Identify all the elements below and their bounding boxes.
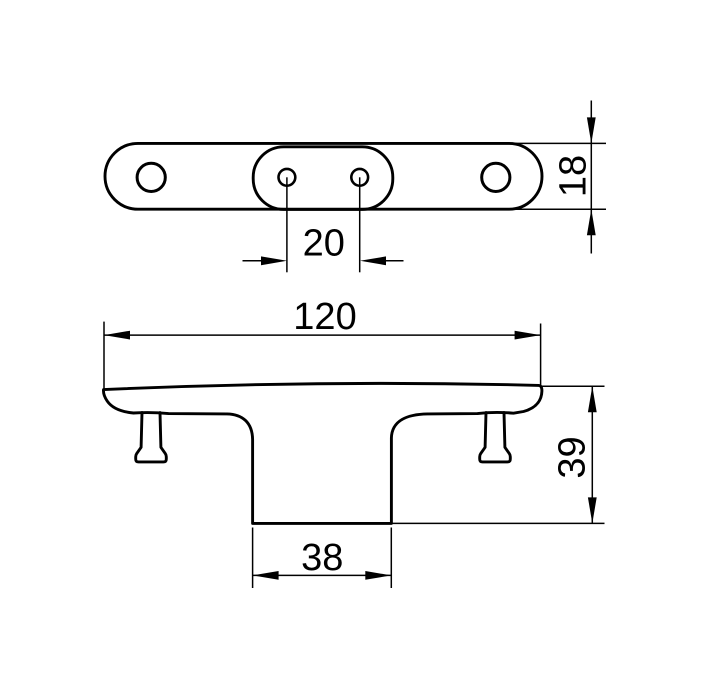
front view: right mounting peg — [480, 413, 511, 462]
dimension 20: left extension line — [286, 177, 288, 272]
dimension 39: top extension line — [541, 385, 605, 387]
dimension 18: top extension line — [505, 142, 606, 144]
dimension 38: right arrow — [365, 571, 391, 580]
top view: left screw hole — [137, 163, 165, 191]
dimension 20: right arrow — [360, 256, 386, 265]
top view: center boss outline — [253, 147, 393, 210]
dimension 120: right extension line — [540, 324, 542, 388]
dimension 120: left arrow — [104, 331, 130, 340]
top view: right screw hole — [482, 163, 510, 191]
top view: outer plate outline — [105, 143, 542, 209]
dimension 38: left arrow — [253, 571, 279, 580]
svg-text:39: 39 — [552, 436, 594, 478]
front view: bracket body outline — [103, 383, 541, 523]
dimension 18: bottom extension line — [505, 208, 606, 210]
svg-text:20: 20 — [303, 223, 345, 265]
dimension 20: right extension line — [359, 177, 361, 272]
dimension 18: top arrow — [587, 117, 596, 143]
dimension 120: left extension line — [103, 322, 105, 389]
dimension 20: left leader — [243, 260, 264, 262]
svg-text:38: 38 — [301, 537, 343, 579]
front view: left mounting peg — [136, 413, 167, 462]
dimension 39: bottom arrow — [588, 497, 597, 523]
dimension 38: left extension line — [252, 528, 254, 589]
dimension 20: right leader — [384, 260, 404, 262]
dimension 18: dimension line — [590, 101, 592, 254]
dimension 39: bottom extension line — [392, 522, 605, 524]
dimension 39: dimension line — [591, 386, 593, 523]
dimension 20: left arrow — [261, 256, 287, 265]
dimension 120: right arrow — [515, 331, 541, 340]
dimension 38: right extension line — [390, 528, 392, 589]
svg-text:120: 120 — [293, 296, 356, 338]
dimension 39: top arrow — [588, 386, 597, 412]
dimension 120: dimension line — [104, 334, 541, 336]
dimension 38: dimension line — [253, 574, 392, 576]
dimension 18: bottom arrow — [587, 209, 596, 235]
top view: left pin hole — [279, 169, 296, 186]
top view: right pin hole — [351, 169, 368, 186]
svg-text:18: 18 — [553, 155, 595, 197]
